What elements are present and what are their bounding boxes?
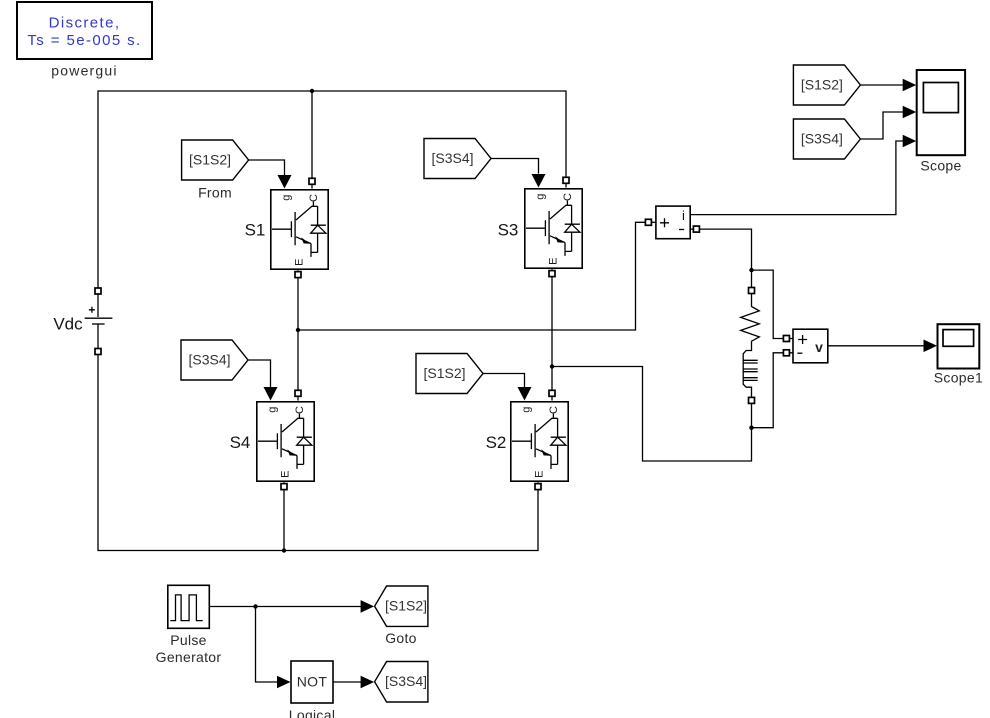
svg-text:Logical: Logical <box>289 707 335 718</box>
svg-text:[S3S4]: [S3S4] <box>801 130 843 146</box>
svg-text:i: i <box>682 208 685 223</box>
svg-text:From: From <box>198 185 232 201</box>
svg-text:Generator: Generator <box>156 649 222 665</box>
svg-text:S4: S4 <box>230 433 251 452</box>
svg-text:Scope1: Scope1 <box>934 370 983 386</box>
svg-text:[S1S2]: [S1S2] <box>801 76 843 92</box>
svg-text:[S3S4]: [S3S4] <box>431 150 473 166</box>
svg-text:Goto: Goto <box>385 630 417 646</box>
svg-text:Discrete,: Discrete, <box>49 15 121 32</box>
svg-text:[S3S4]: [S3S4] <box>385 673 427 689</box>
svg-text:v: v <box>815 339 823 355</box>
svg-text:NOT: NOT <box>297 674 328 690</box>
svg-text:Ts = 5e-005 s.: Ts = 5e-005 s. <box>27 32 141 49</box>
svg-text:S1: S1 <box>245 221 266 240</box>
svg-text:[S1S2]: [S1S2] <box>385 598 427 614</box>
svg-text:S2: S2 <box>486 433 507 452</box>
svg-text:Vdc: Vdc <box>53 314 83 333</box>
svg-text:[S1S2]: [S1S2] <box>189 151 231 167</box>
svg-text:[S3S4]: [S3S4] <box>188 351 230 367</box>
svg-text:[S1S2]: [S1S2] <box>423 365 465 381</box>
svg-text:Pulse: Pulse <box>170 632 207 648</box>
svg-text:powergui: powergui <box>51 63 117 79</box>
svg-text:Scope: Scope <box>920 158 961 174</box>
svg-text:S3: S3 <box>498 221 519 240</box>
